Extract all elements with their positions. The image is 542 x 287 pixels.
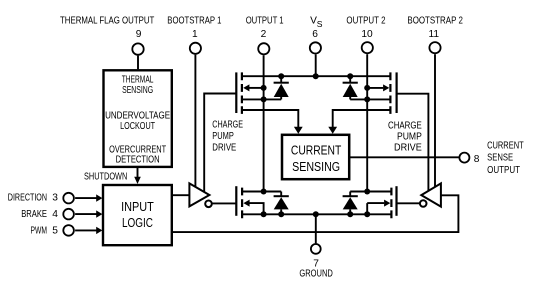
wire VS stem bbox=[315, 54, 317, 76]
svg-text:CURRENT: CURRENT bbox=[291, 143, 342, 158]
diode D4 body diode Q4 bbox=[349, 192, 351, 197]
transistor Q3 body arrow bbox=[243, 200, 249, 207]
svg-text:SENSE: SENSE bbox=[487, 153, 513, 164]
pin 10 terminal circle bbox=[362, 42, 373, 53]
svg-text:LOCKOUT: LOCKOUT bbox=[120, 121, 155, 132]
pin 8 terminal circle bbox=[459, 153, 469, 163]
transistor Q1 channel segments bbox=[241, 72, 243, 114]
transistor Q4 channel segments bbox=[390, 188, 392, 219]
pin 11 terminal circle bbox=[429, 42, 440, 53]
wire Q1 source bbox=[242, 98, 281, 100]
wire output 2 vertical bbox=[366, 54, 368, 191]
current sensing text bbox=[291, 143, 342, 175]
wire bootstrap 1 to driver A bbox=[194, 55, 196, 188]
driver A inverting bubble bbox=[205, 201, 212, 208]
current sensing box bbox=[282, 135, 349, 179]
svg-text:SHUTDOWN: SHUTDOWN bbox=[84, 171, 127, 182]
pin 7 terminal circle bbox=[311, 244, 321, 254]
thermal block box bbox=[104, 70, 172, 167]
node dot Q3 drain-output1 bbox=[261, 189, 267, 195]
svg-text:LOGIC: LOGIC bbox=[122, 215, 153, 230]
node dot D4 anode-ground bbox=[347, 211, 353, 217]
pin 2 terminal circle bbox=[258, 43, 269, 54]
pin 4 terminal circle bbox=[63, 209, 74, 220]
svg-text:GROUND: GROUND bbox=[299, 269, 333, 280]
transistor Q4 bottom-right DMOS gate bar bbox=[395, 186, 397, 216]
svg-text:11: 11 bbox=[429, 29, 440, 40]
wire Q2 sense to current sensing bbox=[333, 110, 391, 130]
arrowhead sense 1 bbox=[294, 127, 303, 134]
wire output 1 vertical bbox=[263, 55, 265, 191]
pin 1 terminal circle bbox=[190, 43, 201, 54]
transistor Q3 channel segments bbox=[241, 188, 243, 219]
wire input logic to driver A bbox=[172, 194, 189, 196]
svg-text:4: 4 bbox=[52, 209, 58, 220]
wire ground rail bbox=[242, 213, 391, 215]
node dot Q2 source-output2 bbox=[364, 96, 370, 102]
svg-text:DRIVE: DRIVE bbox=[212, 143, 236, 154]
thermal block text bbox=[105, 75, 170, 166]
svg-text:CURRENT: CURRENT bbox=[487, 140, 524, 151]
wire pin 9 stem bbox=[137, 56, 139, 70]
transistor Q2 body arrow bbox=[383, 84, 389, 91]
svg-text:DETECTION: DETECTION bbox=[116, 155, 160, 166]
svg-text:OVERCURRENT: OVERCURRENT bbox=[109, 144, 166, 155]
arrowhead brake bbox=[96, 210, 102, 217]
diode D2 body diode Q2 bbox=[349, 76, 351, 83]
svg-text:9: 9 bbox=[136, 29, 142, 40]
svg-text:OUTPUT: OUTPUT bbox=[487, 165, 520, 176]
svg-text:1: 1 bbox=[192, 29, 198, 40]
svg-text:3: 3 bbox=[52, 193, 58, 204]
op-amp driver B triangle bbox=[421, 183, 441, 206]
svg-text:CHARGE: CHARGE bbox=[212, 119, 243, 130]
arrowhead sense 2 bbox=[328, 127, 337, 134]
svg-text:DRIVE: DRIVE bbox=[394, 142, 422, 153]
wire driver B bubble to Q4 gate bbox=[397, 202, 420, 204]
node dot ground tap bbox=[313, 211, 319, 217]
svg-text:BOOTSTRAP 2: BOOTSTRAP 2 bbox=[407, 16, 463, 27]
arrowhead shutdown into input logic bbox=[134, 177, 141, 184]
arrowhead pwm bbox=[96, 227, 102, 234]
arrowhead direction bbox=[96, 194, 102, 201]
svg-text:10: 10 bbox=[361, 29, 373, 40]
wire current sense output bbox=[349, 156, 459, 158]
node dot D3 anode-ground bbox=[278, 211, 284, 217]
transistor Q1 body arrow bbox=[243, 84, 249, 91]
svg-text:PWM: PWM bbox=[31, 226, 48, 237]
wire Q4 drain stub bbox=[350, 191, 391, 193]
svg-text:2: 2 bbox=[261, 29, 267, 40]
svg-text:CHARGE: CHARGE bbox=[388, 120, 422, 131]
wire direction input bbox=[75, 197, 100, 199]
charge pump drive 2 label bbox=[388, 120, 422, 153]
transistor Q4 body arrow bbox=[384, 200, 390, 207]
wire bootstrap 2 to driver B bbox=[434, 54, 436, 187]
wire Q3 drain stub bbox=[242, 191, 281, 193]
svg-text:S: S bbox=[317, 19, 323, 29]
wire shutdown bbox=[137, 168, 139, 177]
svg-text:THERMAL: THERMAL bbox=[122, 75, 154, 86]
wire charge pump 1 to Q1 gate and driver A bbox=[204, 94, 236, 192]
node dot Q3 body-ground bbox=[261, 211, 267, 217]
svg-text:BOOTSTRAP 1: BOOTSTRAP 1 bbox=[167, 16, 221, 27]
svg-text:5: 5 bbox=[52, 226, 58, 237]
node dot Q1 body-output1 bbox=[261, 85, 267, 91]
wire driver A bubble to Q3 gate bbox=[212, 202, 235, 204]
svg-text:SENSING: SENSING bbox=[292, 159, 340, 174]
svg-text:6: 6 bbox=[312, 29, 318, 40]
input logic text bbox=[121, 199, 154, 230]
pin 9 terminal circle bbox=[132, 43, 143, 54]
charge pump drive 1 label bbox=[212, 119, 243, 153]
pin 5 terminal circle bbox=[63, 225, 74, 236]
svg-text:BRAKE: BRAKE bbox=[21, 209, 47, 220]
node dot VS pin junction bbox=[313, 73, 319, 79]
node dot VS-D1 bbox=[278, 73, 284, 79]
svg-text:PUMP: PUMP bbox=[212, 131, 234, 142]
transistor Q2 top-right DMOS gate bar bbox=[396, 72, 398, 113]
op-amp driver A triangle bbox=[189, 183, 209, 206]
pin 3 terminal circle bbox=[63, 193, 74, 204]
node dot Q4 drain-output2 bbox=[364, 189, 370, 195]
svg-text:DIRECTION: DIRECTION bbox=[8, 193, 47, 204]
wire VS top rail bbox=[242, 75, 391, 77]
transistor Q1 top-left DMOS gate bar bbox=[235, 72, 237, 113]
svg-text:UNDERVOLTAGE: UNDERVOLTAGE bbox=[105, 110, 170, 121]
svg-text:PUMP: PUMP bbox=[397, 131, 422, 142]
svg-text:SENSING: SENSING bbox=[122, 85, 153, 96]
wire ground stem bbox=[315, 214, 317, 243]
wire pwm input bbox=[75, 229, 100, 231]
node dot Q2 body-output2 bbox=[364, 85, 370, 91]
svg-text:OUTPUT 2: OUTPUT 2 bbox=[346, 16, 385, 27]
diode D1 body diode Q1 bbox=[280, 76, 282, 83]
wire Q1 sense to current sensing bbox=[242, 110, 298, 130]
diode D3 body diode Q3 bbox=[280, 192, 282, 197]
svg-text:INPUT: INPUT bbox=[121, 199, 154, 214]
node dot Q4 body-ground bbox=[364, 211, 370, 217]
node dot VS-D2 bbox=[347, 73, 353, 79]
pin 8 label CURRENT SENSE OUTPUT bbox=[487, 140, 524, 175]
svg-text:THERMAL FLAG OUTPUT: THERMAL FLAG OUTPUT bbox=[60, 16, 154, 27]
svg-text:8: 8 bbox=[474, 154, 480, 165]
input logic box bbox=[103, 185, 172, 245]
transistor Q3 bottom-left DMOS gate bar bbox=[235, 186, 237, 216]
pin 6 terminal circle bbox=[310, 42, 321, 53]
svg-text:OUTPUT 1: OUTPUT 1 bbox=[246, 16, 284, 27]
wire Q2 source bbox=[350, 98, 390, 100]
wire input logic to driver B bbox=[172, 195, 459, 232]
node dot Q1 source-output1 bbox=[261, 96, 267, 102]
driver B inverting bubble bbox=[420, 200, 427, 207]
wire brake input bbox=[75, 213, 100, 215]
wire charge pump 2 to Q2 gate and driver B bbox=[397, 94, 429, 192]
transistor Q2 channel segments bbox=[389, 72, 391, 114]
